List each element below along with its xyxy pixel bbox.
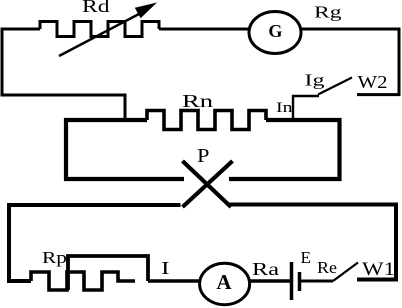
switch W2 blade (318, 78, 352, 95)
arrow (variable resistor Rd slider) (59, 12, 143, 56)
svg-text:Ra: Ra (252, 259, 279, 279)
battery E short plate (298, 272, 302, 291)
resistor Rp (rheostat winding) (31, 272, 135, 290)
battery E long plate (290, 262, 294, 300)
svg-text:W2: W2 (358, 72, 388, 92)
node P crossing: diagonal wire upper-left to lower-right (183, 161, 232, 207)
svg-text:Rn: Rn (182, 91, 213, 111)
wire: galvanometer to right side down to switch W2 stub (301, 29, 399, 95)
svg-text:Rd: Rd (82, 0, 110, 16)
svg-text:A: A (216, 270, 232, 294)
wire: bottom loop top-right segment and right side (229, 205, 396, 280)
wire: middle loop top-right and right side (229, 120, 340, 179)
svg-text:W1: W1 (362, 259, 395, 280)
wire: battery to switch W1 (301, 280, 333, 283)
wire: Rd to galvanometer (159, 28, 250, 31)
resistor Rd (40, 22, 159, 37)
svg-text:In: In (276, 100, 293, 116)
svg-text:Rp: Rp (42, 248, 67, 267)
wire: bottom loop top-left segment and left side (9, 205, 181, 281)
wire: rheostat Rp slider bridge (68, 256, 148, 290)
wire: top loop left branch (top-left corner down and over to middle loop) (2, 29, 125, 122)
wire: middle loop top-left and left side (66, 120, 184, 179)
wire: ammeter to battery (250, 279, 290, 282)
resistor Rn (on top side of middle loop) (147, 111, 266, 130)
switch W1 blade (333, 263, 358, 282)
svg-text:Rg: Rg (314, 3, 342, 22)
ammeter A (200, 263, 250, 304)
svg-text:Ig: Ig (305, 71, 326, 90)
svg-text:Re: Re (317, 258, 337, 277)
galvanometer G (249, 12, 301, 54)
node P crossing: diagonal wire upper-right to lower-left (183, 161, 233, 207)
svg-text:E: E (301, 248, 312, 267)
svg-text:P: P (197, 146, 210, 167)
svg-text:G: G (268, 21, 282, 41)
wire: Rp bridge to ammeter (148, 279, 201, 282)
svg-text:I: I (161, 258, 170, 278)
wire: W2 left stub down to middle loop (node In) (293, 96, 319, 122)
